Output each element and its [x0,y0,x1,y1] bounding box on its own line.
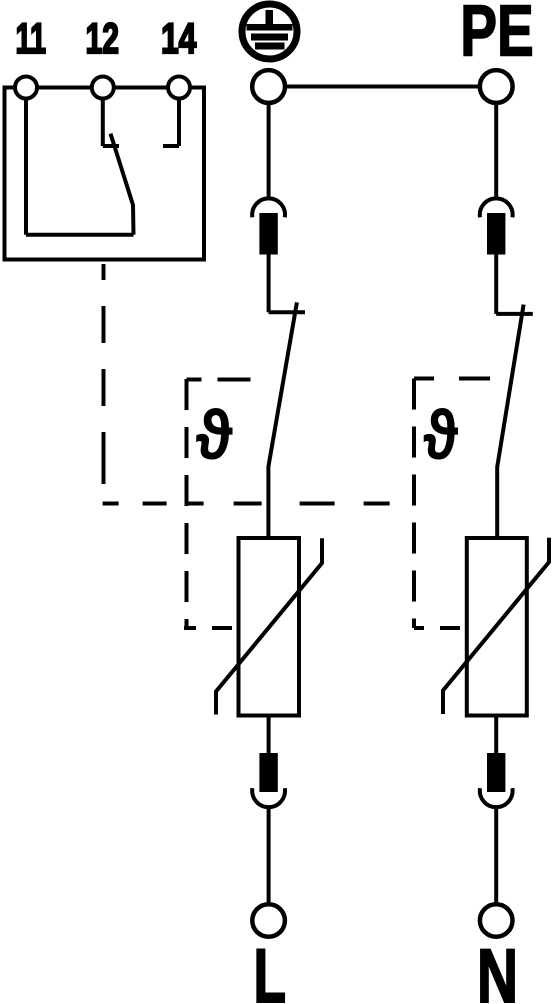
terminal circle N [480,904,513,937]
thermal disconnect arc F2 [252,788,285,807]
remote contact terminal 12 circle [92,77,114,99]
wire terminal 12 down [101,100,105,147]
varistor RV1 diagonal [216,538,322,714]
contact 12 fixed tick [103,144,119,148]
remote contact terminal 11 circle [15,77,37,99]
svg-text:14: 14 [161,15,197,63]
svg-text:N: N [477,934,518,1004]
dashed linkage wire horizontal [103,502,390,506]
protective earth symbol bar 3 [255,43,285,50]
thermal disconnect arc F3 [480,198,513,217]
wire F2 to terminal L [267,808,271,903]
protective earth symbol circle [242,4,297,59]
thermal disconnect arc F1 [252,198,285,217]
wire RV1 to F2 [267,716,271,754]
protective earth symbol bar 1 [247,24,293,31]
dashed thermal box 2 bottom edge [414,626,467,630]
dashed thermal box 1 bottom edge [184,626,239,630]
switch S1 fixed tick [269,310,305,314]
svg-text:11: 11 [16,15,47,63]
remote contact terminal 14 circle [168,77,190,99]
svg-text:ϑ: ϑ [196,396,233,474]
wire terminal 11 down and bottom run [26,100,134,235]
terminal circle L [252,904,285,937]
svg-text:L: L [254,934,287,1004]
varistor RV2 diagonal [443,538,549,714]
dashed thermal box 1 left edge [185,379,189,628]
svg-text:ϑ: ϑ [423,396,458,474]
wire F4 to terminal N [494,808,498,903]
switch S2 blade [497,305,523,538]
wire RV2 to F4 [494,716,498,754]
svg-text:12: 12 [86,15,120,63]
protective earth symbol stem [266,10,274,26]
dashed thermal box 2 left edge [412,379,416,629]
wire F3 to switch S2 [494,255,498,314]
svg-text:PE: PE [460,0,534,72]
dashed thermal box 1 top edge [187,378,266,382]
fuse element F2 [259,753,277,792]
wire right column upper [494,105,498,199]
thermal disconnect arc F4 [480,788,513,807]
wire middle column upper [267,105,271,199]
wire PE bus [269,85,497,89]
changeover switch blade [111,134,134,235]
terminal circle PE top right [480,70,513,103]
fuse element F1 [259,213,277,255]
terminal circle middle top [252,70,285,103]
protective earth symbol bar 2 [251,34,288,41]
remote signalling contact box K1 [5,88,205,260]
contact 14 fixed tick [163,144,179,148]
wire terminal 14 down [177,100,181,147]
fuse element F4 [487,753,505,792]
varistor RV1 body [239,538,300,716]
fuse element F3 [487,213,505,255]
dashed linkage wire from contact box [102,264,106,488]
dashed thermal box 2 top edge [414,377,490,381]
switch S2 fixed tick [496,312,533,316]
varistor RV2 body [467,538,527,716]
wire F1 to switch S1 [267,255,271,313]
switch S1 blade [268,302,297,538]
